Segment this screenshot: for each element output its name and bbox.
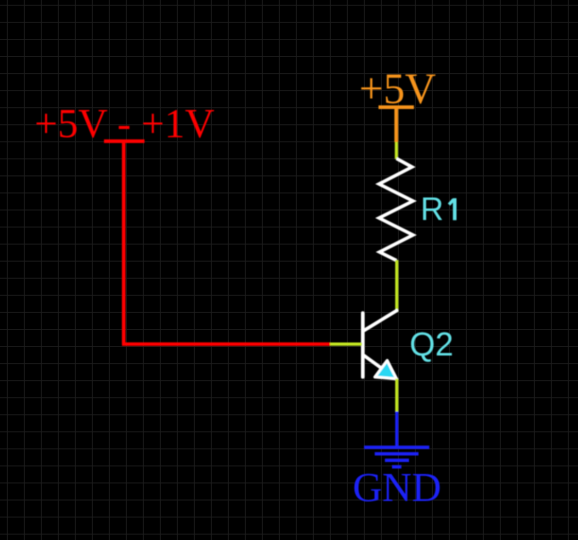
svg-text:GND: GND [353, 464, 442, 510]
transistor Q2 [363, 311, 397, 380]
svg-text:+5V - +1V: +5V - +1V [35, 100, 215, 146]
resistor R1 [379, 159, 413, 261]
wire Q2 emitter to GND [395, 379, 398, 413]
wire R1 to Q2 collector [395, 260, 398, 312]
wire +5V - +1V vertical [122, 141, 126, 344]
ground GND [364, 412, 429, 467]
wire base to Q2 (yellow) [330, 342, 362, 345]
power +5V - +1V [35, 100, 215, 146]
svg-text:Q2: Q2 [410, 326, 454, 363]
power +5V [359, 66, 436, 142]
wire base horizontal (red) [122, 342, 330, 346]
svg-text:R: R [421, 191, 444, 227]
wire +5V to R1 [395, 142, 398, 159]
